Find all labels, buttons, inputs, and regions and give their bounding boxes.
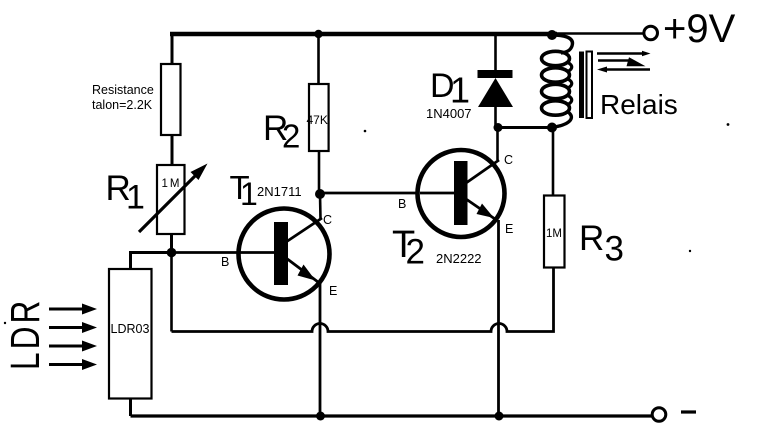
- relay action arrow 2: [598, 57, 646, 66]
- svg-text:1: 1: [450, 70, 470, 111]
- node B junction (T1 collector / T2 base): [315, 189, 325, 199]
- wire LDR bottom: [129, 399, 132, 417]
- svg-text:B: B: [221, 255, 229, 269]
- wire top rail: [170, 32, 557, 37]
- terminal +9V: [644, 26, 658, 40]
- resistor R2 47K: [309, 84, 329, 151]
- wire T1 collector up: [319, 194, 322, 219]
- wire feedback (node A to R3 bottom, with hops): [172, 268, 554, 332]
- wire rail to R2: [317, 34, 320, 84]
- svg-text:Resistance: Resistance: [92, 83, 154, 97]
- svg-text:LDR03: LDR03: [111, 322, 150, 336]
- svg-text:2: 2: [282, 118, 300, 155]
- svg-text:E: E: [329, 284, 337, 298]
- svg-text:E: E: [505, 222, 513, 236]
- svg-text:2: 2: [406, 233, 425, 272]
- light arrow 3: [49, 341, 97, 352]
- relay action arrow 1: [597, 51, 651, 56]
- svg-text:R: R: [579, 219, 604, 258]
- resistor R3 1M: [544, 196, 565, 268]
- wire bottom rail: [131, 414, 653, 417]
- wire D1 down: [494, 107, 497, 128]
- junction rail R2: [314, 30, 322, 38]
- svg-text:talon=2.2K: talon=2.2K: [92, 98, 153, 112]
- svg-text:47K: 47K: [307, 113, 328, 127]
- wire rail to D1: [494, 34, 497, 70]
- svg-text:3: 3: [605, 230, 624, 269]
- svg-text:+9V: +9V: [663, 7, 736, 51]
- svg-text:Relais: Relais: [600, 89, 678, 120]
- LDR03: [109, 269, 152, 399]
- wire node A down: [170, 253, 173, 332]
- relay armature bars: [579, 52, 584, 119]
- wire R1 bottom: [170, 234, 173, 252]
- svg-text:C: C: [323, 213, 332, 227]
- junction coil bottom: [547, 123, 557, 133]
- light arrow 2: [49, 322, 97, 333]
- junction bottom T2 emitter: [495, 412, 504, 421]
- wire T2 emitter down: [497, 220, 500, 416]
- diode D1 1N4007: [478, 70, 514, 107]
- light arrow 4: [49, 359, 97, 370]
- svg-text:1: 1: [240, 176, 258, 212]
- scan speckle: [364, 130, 367, 133]
- relay coil L1: [542, 35, 573, 128]
- svg-text:1: 1: [126, 179, 145, 217]
- resistor talon 2.2K: [161, 64, 181, 135]
- junction coil top on rail: [547, 30, 557, 40]
- wire coil bottom to R3: [552, 128, 555, 196]
- wire node A to LDR top: [131, 253, 172, 270]
- relay action arrow 3: [597, 67, 650, 73]
- svg-text:2N1711: 2N1711: [257, 184, 302, 199]
- wire D1 to coil bottom: [496, 126, 553, 129]
- wire R2 to node B: [318, 151, 321, 193]
- svg-text:2N2222: 2N2222: [436, 251, 482, 266]
- wire node B to T2 base: [320, 192, 455, 195]
- resistor R1 (variable, 1M): [157, 165, 185, 234]
- svg-text:B: B: [398, 197, 406, 211]
- junction bottom T1 emitter: [316, 412, 325, 421]
- wire rail to talon resistor: [171, 32, 174, 64]
- transistor T2: [418, 150, 505, 237]
- wire T1 emitter down: [319, 282, 322, 416]
- light arrow 1: [49, 304, 97, 315]
- wire T2 collector up: [496, 128, 499, 161]
- junction D1/T2 collector: [494, 123, 503, 132]
- svg-text:1M: 1M: [162, 178, 182, 190]
- svg-text:1M: 1M: [546, 228, 562, 240]
- svg-text:LDR: LDR: [2, 298, 48, 370]
- wire +9V lead: [556, 32, 643, 35]
- wire talon to R1: [171, 135, 174, 165]
- terminal minus: [652, 408, 666, 422]
- svg-text:1N4007: 1N4007: [426, 106, 472, 121]
- node A junction: [167, 248, 177, 258]
- transistor T1: [176, 209, 330, 300]
- svg-text:C: C: [504, 153, 513, 167]
